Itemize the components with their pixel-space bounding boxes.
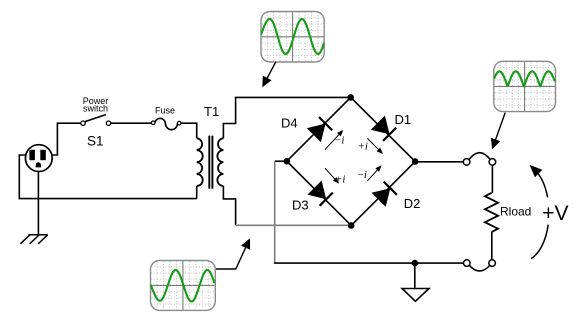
svg-text:T1: T1	[204, 104, 219, 119]
resistor Rload	[485, 193, 498, 232]
diode D2	[372, 182, 397, 207]
oscilloscope screen secondary sine (bottom left)	[151, 261, 216, 311]
+V curved arrow	[530, 165, 549, 259]
svg-text:switch: switch	[83, 104, 108, 114]
wire plug to earth ground	[37, 171, 39, 235]
current arrow -i (upper left)	[325, 130, 343, 150]
junction dot bridge left	[284, 158, 291, 165]
chassis ground	[20, 235, 47, 244]
svg-text:−i: −i	[357, 169, 367, 181]
current arrow +i (lower left)	[325, 168, 339, 184]
arrow scope top to wire	[262, 62, 276, 87]
junction dot bridge bottom	[348, 222, 355, 229]
svg-text:D1: D1	[395, 112, 412, 127]
svg-text:Rload: Rload	[500, 205, 531, 219]
connector bottom (banana jacks)	[464, 260, 496, 271]
wire plug left down to bottom rail	[19, 155, 196, 199]
transformer T1 core	[209, 136, 212, 189]
earth ground triangle	[402, 289, 429, 302]
AC plug P1	[25, 145, 52, 172]
svg-text:D4: D4	[281, 116, 298, 131]
wire to earth ground	[414, 263, 416, 288]
wire secondary top to bridge top node	[223, 97, 350, 138]
svg-text:Fuse: Fuse	[155, 105, 175, 115]
junction dot ground bus	[412, 260, 419, 267]
svg-text:D2: D2	[404, 196, 421, 211]
wire right node to output connector	[415, 161, 463, 163]
fuse F1	[151, 118, 181, 129]
oscilloscope screen input sine (top)	[261, 12, 324, 63]
diode D4	[307, 117, 332, 142]
wire fuse to transformer primary	[181, 123, 197, 138]
svg-text:+i: +i	[335, 173, 345, 185]
wire (gray) left node down	[274, 161, 276, 262]
transformer T1 secondary winding	[217, 138, 223, 186]
svg-text:D3: D3	[292, 198, 309, 213]
wire plug right to switch	[52, 123, 81, 155]
junction dot bridge top	[347, 94, 354, 101]
bridge diamond wires	[287, 97, 415, 225]
svg-text:−i: −i	[334, 135, 344, 147]
diode D3	[308, 181, 333, 206]
svg-text:S1: S1	[87, 134, 104, 149]
wire bottom bus to output connector	[275, 261, 464, 264]
arrow scope bottom-left to wire	[216, 238, 250, 269]
junction dot bridge right	[412, 158, 419, 165]
wire Rload bottom to connector	[491, 232, 493, 260]
svg-text:+V: +V	[542, 202, 568, 225]
switch S1	[81, 115, 111, 126]
current arrow -i (lower right)	[367, 165, 381, 181]
diode D1	[371, 116, 396, 141]
wire connector to Rload top	[491, 165, 493, 193]
wire switch to fuse	[111, 122, 152, 124]
wire (gray) secondary bottom to bridge bottom node	[236, 224, 352, 226]
wire secondary bottom jog	[223, 186, 235, 225]
oscilloscope screen rectified output (top right)	[494, 61, 556, 111]
connector top (banana jacks)	[463, 153, 495, 166]
arrow scope top-right to connector	[491, 113, 505, 150]
svg-text:+i: +i	[358, 141, 368, 153]
wire (black stub) bridge left node	[275, 160, 287, 162]
transformer T1 primary winding	[197, 138, 203, 186]
current arrow +i (upper right)	[367, 138, 383, 154]
